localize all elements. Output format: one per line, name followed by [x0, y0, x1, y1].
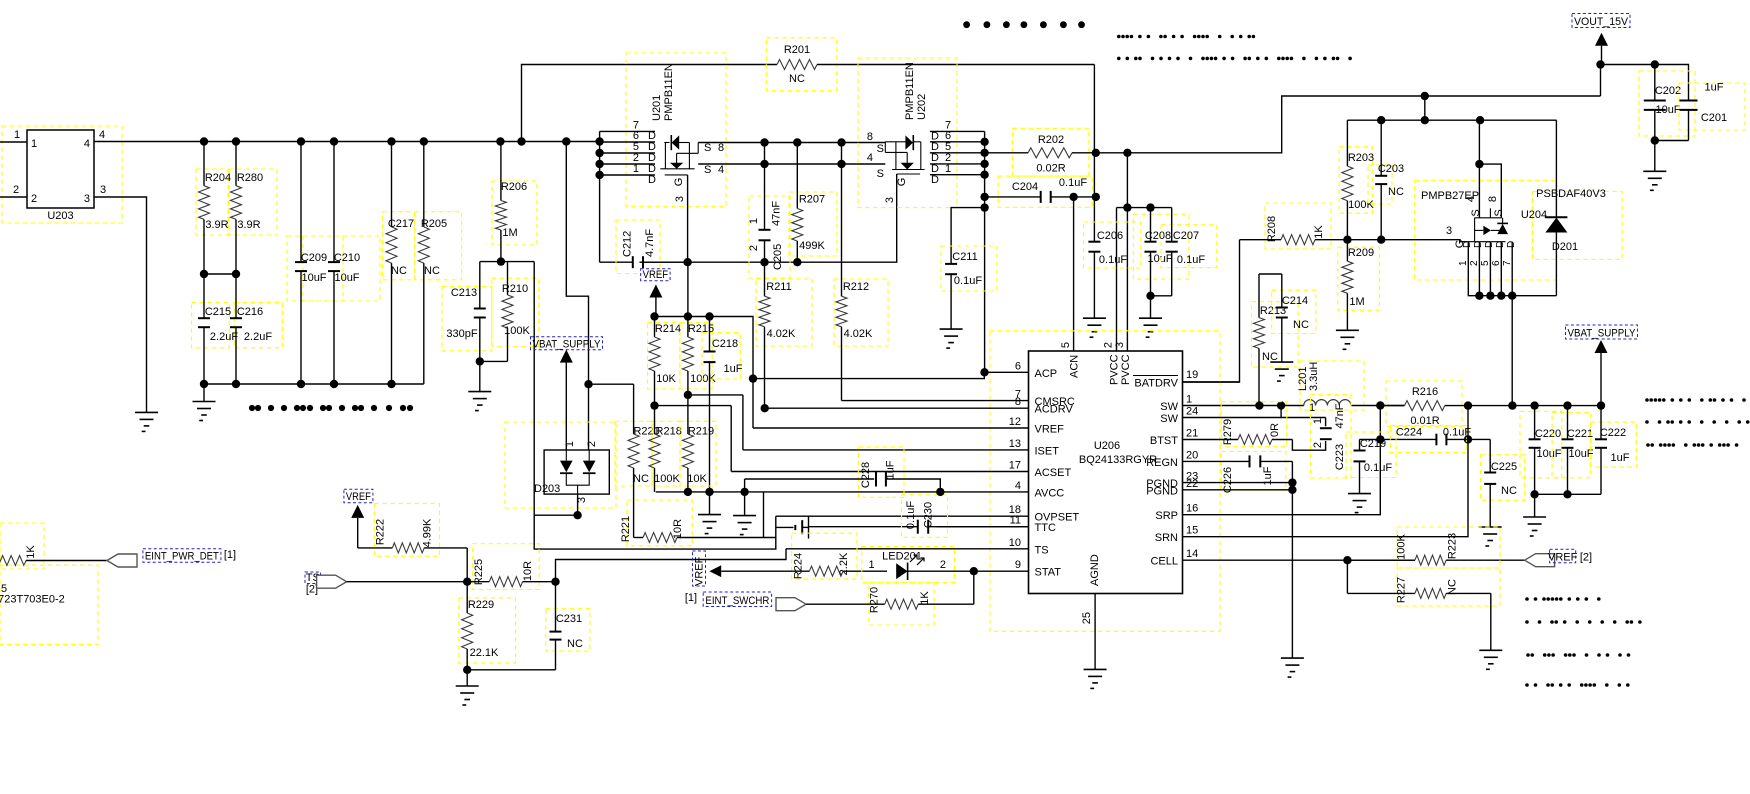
svg-text:CELL: CELL	[1150, 556, 1178, 568]
svg-text:10uF: 10uF	[334, 272, 359, 284]
capacitor C209	[300, 142, 302, 263]
yellow box R214	[648, 323, 680, 389]
svg-text:NC: NC	[1262, 351, 1278, 363]
resistor R211	[764, 262, 766, 296]
yellow box C224	[1390, 425, 1466, 452]
svg-text:R221: R221	[620, 516, 632, 542]
capacitor C206	[1093, 241, 1095, 243]
yellow box C226	[1221, 451, 1286, 490]
capacitor C215	[203, 274, 205, 318]
svg-text:ISET: ISET	[1035, 445, 1060, 457]
svg-text:100K: 100K	[1396, 533, 1408, 559]
yellow box R215	[680, 323, 712, 389]
svg-text:VREF: VREF	[1035, 424, 1065, 436]
svg-text:3: 3	[1446, 225, 1452, 237]
resistor R206	[500, 142, 502, 201]
svg-text:8: 8	[867, 131, 873, 143]
svg-text:R211: R211	[766, 281, 791, 293]
svg-text:1uF: 1uF	[724, 363, 743, 375]
wire branch to R220 top	[589, 383, 634, 385]
wire IC pin 8 ACDRV row	[765, 407, 1029, 409]
capacitor C224 plates	[1435, 434, 1437, 446]
wire IC pin 6 ACP row	[984, 371, 1028, 373]
svg-text:R218: R218	[656, 426, 682, 438]
svg-text:AGND: AGND	[1089, 554, 1101, 586]
capacitor C205	[764, 143, 766, 230]
wire U203 pin 3 to ground	[94, 197, 147, 412]
svg-text:D: D	[1484, 241, 1495, 248]
svg-text:100K: 100K	[504, 325, 530, 337]
resistor R279	[1183, 439, 1238, 441]
ground under cap bank	[1534, 494, 1536, 517]
svg-text:24: 24	[1186, 406, 1198, 418]
wire R202 node to top-right feeder	[1096, 96, 1601, 153]
capacitor C218	[709, 317, 711, 352]
wire S8 branch of U204	[1479, 164, 1501, 218]
yellow box R207	[789, 192, 837, 256]
svg-text:R214: R214	[655, 323, 681, 335]
svg-text:1: 1	[14, 129, 20, 141]
ground under C202	[1654, 141, 1656, 172]
wire S feed vertical of U204	[1478, 120, 1481, 218]
wire IC pin 13 ISET row	[743, 449, 1029, 451]
svg-text:5: 5	[1480, 260, 1491, 266]
svg-text:R224: R224	[793, 553, 805, 579]
svg-text:0.1uF: 0.1uF	[1443, 427, 1471, 439]
wire VREF net line	[655, 317, 754, 318]
yellow box C201	[1679, 83, 1745, 130]
yellow box R209	[1338, 247, 1380, 310]
svg-text:AVCC: AVCC	[1035, 487, 1065, 499]
svg-text:3: 3	[84, 193, 90, 205]
resistor R203	[1346, 120, 1348, 166]
svg-text:4: 4	[1015, 480, 1021, 492]
svg-text:2: 2	[748, 245, 760, 251]
wire BATDRV to R208	[1183, 240, 1240, 382]
svg-text:C221: C221	[1567, 428, 1593, 440]
svg-text:NC: NC	[633, 473, 649, 485]
wire BATDRV pin 19 stub	[1183, 381, 1240, 383]
junction SRN riser at C224	[1464, 435, 1472, 443]
power flag VOUT_15V	[1595, 33, 1608, 46]
svg-text:R225: R225	[473, 559, 485, 585]
wire node x534 down to TS branch line	[534, 262, 776, 549]
svg-text:TS: TS	[1035, 544, 1049, 556]
wire C208/C207 common to ground	[1151, 295, 1172, 297]
svg-text:R208: R208	[1266, 216, 1278, 242]
ground at U203 pin 3	[135, 411, 158, 413]
svg-text:C217: C217	[388, 218, 414, 230]
wire ACSET jog	[730, 406, 732, 472]
svg-text:EINT_PWR_DET: EINT_PWR_DET	[145, 551, 219, 563]
resistor R201 (NC)	[776, 64, 778, 66]
junction feeder/y96	[1421, 92, 1429, 100]
wire R215 bottom to ISET jog	[688, 394, 743, 396]
wire PVCC pin2 vertical	[1126, 153, 1128, 351]
wire cap bank common bottom	[1535, 493, 1601, 495]
svg-text:S: S	[877, 168, 884, 180]
svg-text:C211: C211	[952, 251, 977, 263]
svg-text:2.2K: 2.2K	[838, 552, 850, 575]
svg-text:U203: U203	[47, 210, 73, 222]
svg-text:U206: U206	[1094, 440, 1120, 452]
yellow box C210	[303, 236, 380, 301]
svg-text:C231: C231	[556, 613, 582, 625]
svg-text:10: 10	[1009, 537, 1021, 549]
wire R203/C203 top line	[1347, 119, 1556, 121]
yellow box U203	[2, 126, 122, 223]
dotted row right mid 2	[1645, 420, 1749, 424]
svg-text:D: D	[648, 174, 656, 186]
svg-text:8: 8	[1487, 196, 1499, 202]
svg-text:10uF: 10uF	[1536, 448, 1561, 460]
wire R214 bottom line to ACSET jog	[655, 405, 732, 407]
svg-text:PSBDAF40V3: PSBDAF40V3	[1536, 188, 1606, 200]
wire VOUT line	[1601, 65, 1689, 101]
svg-text:NC: NC	[567, 638, 583, 650]
svg-text:VREF: VREF	[346, 491, 371, 503]
ground under R227	[1490, 593, 1492, 650]
svg-text:VREF: VREF	[694, 556, 706, 586]
resistor R222	[391, 547, 393, 549]
junction R229 bottom	[463, 666, 471, 674]
wire IC pin 11 TTC row	[937, 526, 1029, 528]
svg-text:0.02R: 0.02R	[1036, 163, 1065, 175]
svg-text:R270: R270	[869, 587, 881, 613]
ground under R229	[466, 670, 468, 686]
svg-text:21: 21	[1186, 428, 1198, 440]
svg-text:4: 4	[84, 138, 90, 150]
junction R214 bottom	[650, 401, 658, 409]
svg-text:NC: NC	[1293, 319, 1309, 331]
svg-text:C203: C203	[1378, 163, 1404, 175]
resistor R218	[654, 406, 656, 434]
yellow box C218	[702, 333, 740, 379]
svg-text:1: 1	[31, 138, 37, 150]
wire U201 drain bus and pin stubs	[600, 131, 655, 262]
svg-text:0.1uF: 0.1uF	[954, 275, 982, 287]
svg-text:VBAT_SUPPLY: VBAT_SUPPLY	[533, 338, 602, 350]
svg-text:C230: C230	[923, 502, 935, 528]
svg-text:1uF: 1uF	[1705, 82, 1724, 94]
svg-text:1K: 1K	[25, 545, 37, 559]
yellow box C203	[1368, 165, 1392, 204]
yellow box C202	[1639, 71, 1695, 136]
svg-text:4.02K: 4.02K	[767, 328, 796, 340]
svg-text:R204: R204	[205, 172, 231, 184]
junctions on input rail	[200, 137, 604, 145]
svg-text:VOUT_15V: VOUT_15V	[1574, 16, 1629, 28]
capacitor C223	[1325, 418, 1327, 427]
svg-text:ACSET: ACSET	[1035, 467, 1072, 479]
capacitor C212	[631, 261, 634, 263]
wire R206/C213/R210 node	[480, 261, 534, 263]
svg-text:1: 1	[564, 441, 576, 447]
svg-text:S: S	[877, 143, 884, 155]
wire main input rail	[94, 141, 600, 143]
svg-text:4: 4	[99, 129, 105, 141]
svg-text:2: 2	[31, 193, 37, 205]
junction at D203 pin 3	[573, 511, 581, 519]
svg-text:1uF: 1uF	[885, 460, 897, 479]
dotted row bottom right 1	[1525, 597, 1600, 601]
svg-text:R209: R209	[1348, 247, 1374, 259]
svg-text:PGND: PGND	[1146, 485, 1178, 497]
yellow box C228	[858, 447, 904, 497]
ground under C213	[479, 361, 481, 391]
yellow box C222	[1591, 422, 1637, 467]
wire C224 node to C225	[1468, 438, 1490, 440]
svg-text:NC: NC	[424, 265, 440, 277]
junction at R206 bottom node	[497, 257, 505, 265]
svg-text:R222: R222	[375, 519, 387, 545]
svg-text:S: S	[1493, 209, 1505, 216]
svg-text:REGN: REGN	[1146, 457, 1178, 469]
svg-text:NC: NC	[1501, 485, 1517, 497]
svg-text:SRN: SRN	[1155, 532, 1178, 544]
wire VOUT corner down to feeder	[1600, 65, 1602, 97]
yellow box R227	[1397, 568, 1500, 606]
yellow box C214	[1272, 290, 1316, 333]
ground PGND	[1281, 657, 1304, 659]
junctions on gate line	[683, 258, 801, 266]
svg-text:C206: C206	[1097, 230, 1123, 242]
ground under C208/C207	[1150, 296, 1152, 318]
yellow box C207	[1161, 225, 1217, 268]
svg-text:47nF: 47nF	[1334, 403, 1346, 428]
svg-text:100K: 100K	[654, 473, 680, 485]
svg-text:3: 3	[884, 197, 896, 203]
yellow box R219	[680, 421, 716, 486]
yellow box R220	[615, 421, 652, 486]
power flag VREF (bottom left)	[351, 505, 364, 518]
svg-text:D201: D201	[1552, 241, 1578, 253]
svg-text:0.1uF: 0.1uF	[905, 501, 917, 529]
svg-text:BTST: BTST	[1150, 435, 1178, 447]
wire PVCC link line	[1117, 207, 1172, 209]
capacitor C222	[1600, 406, 1602, 440]
wire R222 down to TS node	[466, 548, 468, 582]
svg-text:[1]: [1]	[224, 549, 236, 561]
ground under C214	[1270, 361, 1293, 363]
wire TS row link	[556, 549, 787, 582]
dotted row right mid 3	[1646, 443, 1738, 447]
junction at caps bottom	[1651, 136, 1659, 144]
junction SRP node on SW output	[1376, 401, 1384, 409]
capacitor C216	[235, 274, 237, 318]
junction on SRP vertical at C224 line	[1376, 435, 1384, 443]
wire C224 line left part	[1360, 438, 1437, 440]
svg-text:NC: NC	[391, 265, 407, 277]
yellow box C211	[941, 246, 997, 291]
capacitor C219	[1359, 439, 1361, 450]
yellow box D201	[1532, 191, 1622, 259]
junctions cap bank bottom	[1530, 490, 1571, 498]
svg-text:D: D	[1473, 241, 1484, 248]
yellow box C221	[1552, 413, 1591, 478]
yellow box edge component	[0, 565, 98, 644]
yellow box R280	[229, 169, 277, 235]
wire SRP row	[1183, 406, 1380, 515]
svg-text:C208: C208	[1145, 230, 1171, 242]
svg-text:5: 5	[1060, 342, 1072, 348]
svg-text:S: S	[704, 164, 711, 176]
resistor R204	[203, 142, 205, 186]
wire CELL node down to R227	[1346, 560, 1348, 593]
wire CELL row	[1183, 559, 1415, 561]
junction at C213 bottom	[476, 357, 484, 365]
svg-text:R227: R227	[1396, 577, 1408, 603]
capacitor C230	[917, 526, 919, 528]
ic U203 body	[27, 130, 94, 208]
junction D203 pin2 line to R220 branch	[584, 380, 592, 388]
junctions on VREF net line	[650, 312, 713, 320]
svg-text:25: 25	[1081, 612, 1093, 624]
svg-text:1: 1	[633, 163, 639, 175]
yellow box R225	[473, 544, 540, 590]
svg-text:17: 17	[1009, 460, 1021, 472]
capacitor C211	[950, 263, 952, 265]
yellow box R224	[792, 533, 857, 579]
junctions at R208 node	[1343, 236, 1385, 244]
svg-text:3: 3	[100, 184, 106, 196]
wire ACP jog to acp line	[753, 372, 984, 378]
power flag VBAT_SUPPLY (right)	[1595, 340, 1608, 353]
svg-text:7: 7	[1502, 260, 1513, 266]
svg-text:2: 2	[13, 184, 19, 196]
yellow box R211	[756, 279, 812, 346]
ground under R209	[1336, 329, 1359, 331]
junction S pins of U204	[1475, 160, 1483, 168]
svg-text:C224: C224	[1396, 427, 1422, 439]
svg-text:11: 11	[1010, 515, 1021, 527]
junctions on U204 drain bus	[1475, 292, 1516, 300]
resistor R229	[466, 582, 468, 613]
connector VREF[2]	[1525, 554, 1555, 567]
yellow box C206	[1084, 222, 1141, 268]
svg-text:1M: 1M	[1349, 296, 1364, 308]
yellow box U206 (IC highlight)	[990, 331, 1220, 632]
svg-text:SW: SW	[1160, 401, 1178, 413]
wire ACN pin 5 riser	[1073, 197, 1075, 351]
svg-text:U204: U204	[1521, 209, 1547, 221]
wire C231 bottom to R229 bottom	[467, 669, 555, 671]
svg-text:10uF: 10uF	[1568, 448, 1593, 460]
wire D203 pin 3 down and to x534	[534, 494, 577, 515]
connector TS[2]	[317, 575, 347, 588]
capacitor C214	[1281, 274, 1283, 308]
svg-text:C213: C213	[451, 287, 477, 299]
wire U204 drain pins to bus	[1468, 242, 1556, 296]
junctions on U201 drain bus	[595, 149, 603, 179]
yellow box R221 (left)	[627, 500, 692, 546]
junctions PGND node	[1288, 478, 1296, 494]
svg-text:VBAT_SUPPLY: VBAT_SUPPLY	[1568, 328, 1637, 340]
wire bottom ground rail	[204, 383, 424, 385]
junctions on R202 node line	[1092, 149, 1132, 157]
capacitor C221	[1567, 406, 1569, 440]
wire gate line to U202	[640, 174, 897, 262]
wire SRN row	[1183, 406, 1468, 537]
capacitor C204	[985, 196, 1041, 198]
resistor R213	[1258, 274, 1260, 318]
wire C202/C201 common bottom	[1655, 140, 1689, 142]
yellow box R279	[1221, 402, 1287, 447]
svg-text:1K: 1K	[1313, 225, 1325, 239]
svg-text:G: G	[673, 178, 685, 187]
svg-text:1: 1	[868, 559, 874, 571]
yellow box C230	[902, 495, 948, 538]
svg-text:C212: C212	[622, 231, 634, 257]
svg-text:VREF: VREF	[1548, 551, 1578, 563]
svg-text:R216: R216	[1412, 386, 1438, 398]
yellow box R212	[834, 279, 888, 346]
wire R204-R280 mid link	[204, 273, 236, 275]
yellow box C204	[998, 176, 1092, 207]
capacitor on TTC row (unlabeled)	[776, 526, 794, 528]
svg-text:10uF: 10uF	[301, 272, 326, 284]
resistor R224	[721, 570, 809, 572]
capacitor C213	[479, 262, 481, 309]
wire R270 up to STAT node	[973, 571, 975, 604]
svg-text:ACN: ACN	[1069, 355, 1081, 378]
wire top feeder to y120 link	[1424, 96, 1426, 120]
svg-text:D: D	[931, 174, 939, 186]
yellow box U201	[626, 53, 726, 207]
svg-text:12: 12	[1009, 416, 1021, 428]
svg-text:100K: 100K	[1348, 199, 1374, 211]
svg-text:10K: 10K	[656, 373, 676, 385]
yellow box C209	[287, 236, 343, 301]
wire U203 pin 1	[0, 141, 27, 143]
svg-text:[2]: [2]	[1580, 552, 1592, 564]
yellow box R202	[1012, 128, 1088, 176]
svg-text:STAT: STAT	[1035, 567, 1062, 579]
svg-text:10R: 10R	[522, 561, 534, 581]
ground at bottom rail	[203, 384, 205, 402]
wire U201 source8 row	[698, 142, 885, 144]
svg-text:47nF: 47nF	[771, 201, 783, 226]
svg-text:330pF: 330pF	[446, 328, 477, 340]
junction CELL node	[1343, 556, 1351, 564]
svg-text:2: 2	[586, 441, 598, 447]
svg-text:13: 13	[1009, 438, 1021, 450]
svg-text:0.1uF: 0.1uF	[1099, 254, 1127, 266]
capacitor C203	[1380, 120, 1382, 176]
svg-text:PMPB11EN: PMPB11EN	[663, 63, 675, 121]
wire VREF net vertical to pin 12	[752, 318, 754, 428]
yellow box C215	[192, 302, 230, 347]
junctions on U202 drain bus	[980, 138, 988, 212]
svg-text:3: 3	[1114, 342, 1126, 348]
svg-text:C205: C205	[772, 244, 784, 270]
wire SW24 riser	[1280, 406, 1282, 418]
resistor R219	[687, 395, 689, 434]
yellow box R204	[196, 169, 228, 235]
svg-text:ACP: ACP	[1035, 368, 1058, 380]
svg-text:6: 6	[1015, 360, 1021, 372]
svg-text:14: 14	[1186, 548, 1198, 560]
resistor R208	[1240, 239, 1282, 241]
capacitor C228	[745, 478, 875, 480]
svg-text:SW: SW	[1160, 413, 1178, 425]
connector EINT_PWR_DET	[107, 554, 137, 567]
ground under C225	[1479, 526, 1502, 528]
svg-text:R212: R212	[843, 281, 869, 293]
svg-text:0.1uF: 0.1uF	[1364, 462, 1392, 474]
yellow box R206	[492, 181, 537, 245]
yellow box LED201	[862, 547, 955, 583]
